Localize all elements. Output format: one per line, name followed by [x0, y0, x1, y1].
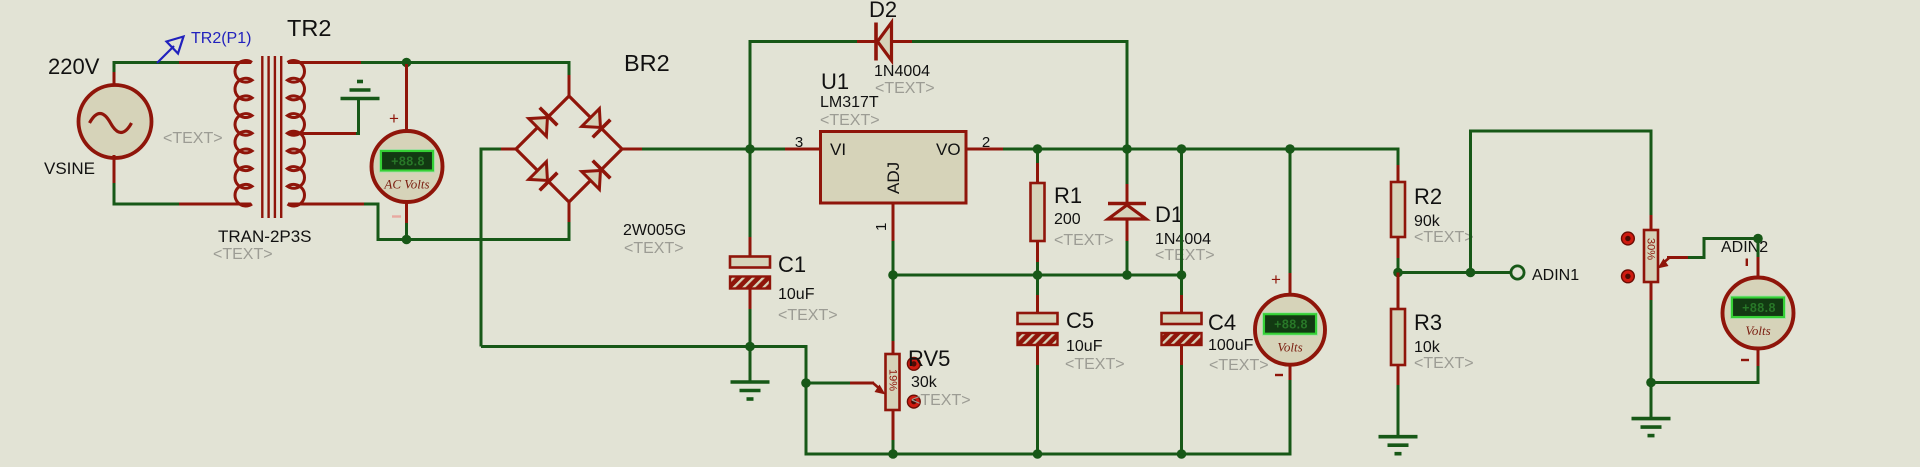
junction C4 top node [1177, 270, 1187, 280]
svg-text:+88.8: +88.8 [1742, 301, 1776, 315]
pin 220V source top stub [113, 72, 116, 88]
wire C1 ground stem [749, 347, 752, 383]
svg-text:<TEXT>: <TEXT> [1065, 356, 1125, 373]
pin C4 top [1180, 295, 1183, 314]
pin right pot wiper lead [1667, 256, 1689, 259]
terminal right pot upper red dot [1622, 232, 1635, 245]
label RV5 wiper percent [887, 369, 899, 391]
label C5 value 10uF [1066, 338, 1103, 355]
junction ADJ node [888, 270, 898, 280]
pin RV5 bottom [892, 409, 895, 441]
label C1 property placeholder [778, 307, 838, 324]
wire DC voltmeter minus lead [1289, 380, 1292, 456]
wire ADJ rail [893, 274, 1182, 277]
pin right voltmeter minus [1757, 347, 1760, 367]
svg-text:+: + [389, 109, 399, 128]
voltmeter PV1 AC Volts [372, 131, 443, 202]
pin RV5 wiper arrow [873, 383, 886, 395]
svg-text:D2: D2 [869, 0, 897, 22]
wire C1 top lead [749, 149, 752, 238]
label transformer TR2 [287, 15, 331, 41]
pin C1 bottom [749, 288, 752, 310]
wire right pot top lead [1650, 130, 1653, 217]
svg-text:U1: U1 [821, 69, 849, 94]
pin secondary top tap [288, 61, 362, 64]
pin AC voltmeter negative [405, 202, 408, 224]
svg-text:1: 1 [873, 223, 890, 231]
label U1 pin VI [830, 140, 846, 159]
transformer TR2 core [262, 56, 281, 218]
junction RV5 wiper node [801, 378, 811, 388]
svg-text:TRAN-2P3S: TRAN-2P3S [218, 227, 312, 246]
label minus sign AC voltmeter [392, 215, 401, 217]
wire R1 bottom lead [1036, 262, 1039, 275]
svg-text:ADJ: ADJ [884, 162, 903, 194]
svg-text:1N4004: 1N4004 [874, 63, 930, 80]
pin U1 VO stub [965, 148, 1004, 151]
wire R2 bottom lead [1397, 258, 1400, 273]
wire DC minus vertical [480, 148, 483, 347]
regulator U1 LM317T body [821, 132, 967, 204]
voltmeter PV3 Volts right [1723, 278, 1794, 349]
svg-text:30%: 30% [1645, 238, 1657, 260]
wire bridge top lead [568, 63, 571, 77]
svg-text:VSINE: VSINE [44, 159, 95, 178]
label diode D1 [1155, 202, 1183, 227]
label pin number 3 [795, 134, 803, 151]
label R3 value 10k [1414, 339, 1441, 356]
potentiometer RV right body [1644, 230, 1658, 282]
pin U1 ADJ [892, 203, 895, 242]
resistor R3 10k [1391, 309, 1405, 365]
wire right pot bottom lead [1650, 300, 1653, 418]
pin C5 bottom [1036, 344, 1039, 366]
wire rail bypass vertical [1180, 149, 1183, 275]
wire RV5 top lead [892, 275, 895, 342]
pin right voltmeter plus [1757, 257, 1760, 279]
svg-text:<TEXT>: <TEXT> [1414, 229, 1474, 246]
svg-text:<TEXT>: <TEXT> [213, 246, 273, 263]
label U1 pin VO [936, 140, 961, 159]
svg-text:100uF: 100uF [1208, 337, 1254, 354]
svg-text:D1: D1 [1155, 202, 1183, 227]
svg-text:19%: 19% [887, 369, 899, 391]
svg-text:Volts: Volts [1745, 323, 1770, 338]
transformer TR2 secondary winding [288, 61, 305, 206]
label U1 property placeholder [820, 112, 880, 129]
svg-text:10uF: 10uF [1066, 338, 1103, 355]
pin C4 bottom [1180, 344, 1183, 366]
svg-text:VO: VO [936, 140, 961, 159]
pin C5 top [1036, 295, 1039, 314]
resistor R1 200 [1031, 183, 1045, 241]
label C4 property placeholder [1209, 357, 1269, 374]
label R3 property placeholder [1414, 355, 1474, 372]
pin D2 anode-side stub [857, 40, 875, 43]
svg-text:1N4004: 1N4004 [1155, 231, 1211, 248]
bridge BR2 diamond outline [516, 96, 622, 202]
junction D2 C1 node [745, 144, 755, 154]
label capacitor C4 [1208, 310, 1236, 335]
junction D2 return node [1122, 144, 1132, 154]
diode BR2 top-right [582, 109, 611, 138]
pin D1 cathode [1126, 184, 1129, 204]
pin D1 anode [1126, 220, 1129, 242]
pin right pot bottom [1650, 281, 1653, 301]
pin transformer primary bottom lead [179, 203, 251, 206]
pin 220V source bottom stub [113, 155, 116, 184]
junction C4 bottom on rail [1177, 449, 1187, 459]
label regulator U1 [821, 69, 849, 94]
junction AC+ node [402, 58, 412, 68]
label minus sign right voltmeter [1741, 359, 1749, 361]
wire ground run horizontal [481, 345, 808, 348]
svg-text:220V: 220V [48, 54, 100, 79]
diode D1 1N4004 [1108, 204, 1146, 220]
junction C5 bottom on rail [1033, 449, 1043, 459]
diode BR2 bottom-left [529, 162, 558, 191]
generator V1 220V VSINE source circle [79, 85, 152, 158]
svg-text:<TEXT>: <TEXT> [1414, 355, 1474, 372]
wire R3 bottom lead [1397, 385, 1400, 437]
label plus sign DC voltmeter [1271, 270, 1281, 289]
wire C4 bottom lead [1180, 365, 1183, 454]
capacitor C1 10uF [730, 257, 770, 289]
label diode D2 [869, 0, 897, 22]
wire RV5 bottom lead [892, 440, 895, 454]
pin AC voltmeter positive [405, 64, 408, 131]
label source property placeholder [163, 130, 223, 147]
wire bridge bottom drop [568, 222, 571, 241]
svg-text:<TEXT>: <TEXT> [163, 130, 223, 147]
svg-text:<TEXT>: <TEXT> [1209, 357, 1269, 374]
pin bridge top corner [568, 75, 571, 97]
pin right pot top [1650, 215, 1653, 231]
terminal ADIN1 open circle [1511, 266, 1524, 279]
pin right pot wiper arrow [1658, 258, 1670, 269]
label C1 value 10uF [778, 286, 815, 303]
label pin number 2 [982, 134, 990, 151]
wire D2 branch right riser [912, 42, 1127, 151]
label probe TR2(P1) [191, 30, 251, 47]
ground transformer center tap [341, 82, 380, 99]
label potentiometer RV5 [908, 346, 950, 371]
pin bridge left corner [500, 148, 517, 151]
terminal RV5 lower red dot [907, 395, 920, 408]
wire C4 top lead [1180, 275, 1183, 296]
wire source top vertical [113, 63, 116, 79]
pin R1 bottom [1036, 240, 1039, 263]
potentiometer RV5 body [886, 354, 900, 410]
label source name VSINE [44, 159, 95, 178]
pin RV5 top [892, 341, 895, 355]
svg-text:90k: 90k [1414, 213, 1441, 230]
svg-text:BR2: BR2 [624, 50, 670, 76]
svg-text:VI: VI [830, 140, 846, 159]
svg-text:10k: 10k [1414, 339, 1441, 356]
svg-text:<TEXT>: <TEXT> [1155, 247, 1215, 264]
label transformer property placeholder [213, 246, 273, 263]
wire bottom rail [805, 453, 1292, 456]
svg-text:C4: C4 [1208, 310, 1236, 335]
wire D2 branch left riser [750, 42, 858, 151]
wire C5 bottom lead [1036, 365, 1039, 454]
label source value 220V [48, 54, 100, 79]
svg-text:<TEXT>: <TEXT> [624, 240, 684, 257]
pin DC voltmeter minus [1289, 364, 1292, 381]
junction RV5 bottom on rail [888, 449, 898, 459]
wire divider to ADIN1 [1398, 271, 1511, 274]
label capacitor C5 [1066, 308, 1094, 333]
label resistor R3 [1414, 310, 1442, 335]
junction D1 bottom node [1122, 270, 1132, 280]
label R1 property placeholder [1054, 232, 1114, 249]
wire right voltmeter top lead [1757, 239, 1760, 259]
svg-text:C5: C5 [1066, 308, 1094, 333]
junction divider node [1393, 268, 1403, 278]
svg-text:TR2(P1): TR2(P1) [191, 30, 251, 47]
wire ground run corner drop [805, 347, 808, 456]
junction bypass column node [1177, 144, 1187, 154]
capacitor C5 10uF [1018, 313, 1058, 345]
wire D1 top lead [1126, 149, 1129, 185]
wire feedback riser and top run [1471, 131, 1652, 273]
svg-text:<TEXT>: <TEXT> [820, 112, 880, 129]
label RV5 value 30k [911, 374, 938, 391]
resistor R2 90k [1391, 182, 1405, 237]
label minus sign DC voltmeter [1275, 374, 1283, 376]
junction R1 top node [1033, 144, 1043, 154]
terminal right pot lower red dot [1622, 270, 1635, 283]
wire source bottom horizontal [113, 203, 181, 206]
terminal RV5 upper red dot [907, 357, 920, 370]
pin R2 top [1397, 165, 1400, 183]
junction AC- node [402, 235, 412, 245]
diode D2 1N4004 [876, 23, 892, 61]
pin R3 bottom [1397, 364, 1400, 386]
svg-text:<TEXT>: <TEXT> [875, 80, 935, 97]
label transformer TRAN-2P3S [218, 227, 312, 246]
svg-text:2W005G: 2W005G [623, 222, 686, 239]
pin DC voltmeter plus [1289, 273, 1292, 295]
label node ADIN2 [1721, 239, 1768, 256]
probe TR2(P1) blue arrow [157, 37, 184, 64]
svg-text:<TEXT>: <TEXT> [1054, 232, 1114, 249]
svg-text:ADIN2: ADIN2 [1721, 239, 1768, 256]
svg-text:ADIN1: ADIN1 [1532, 267, 1579, 284]
wire RV5 wiper run [806, 382, 851, 385]
label bridge BR2 [624, 50, 670, 76]
label node ADIN1 [1532, 267, 1579, 284]
label D1 property placeholder [1155, 247, 1215, 264]
svg-text:200: 200 [1054, 211, 1081, 228]
wire wiper to ADIN2 [1688, 239, 1760, 258]
pin RV5 wiper [850, 382, 874, 385]
wire secondary top to bridge [361, 61, 571, 64]
label resistor R2 [1414, 184, 1442, 209]
junction feedback riser node [1466, 268, 1476, 278]
wire main rail from bridge [642, 148, 786, 151]
ground below R3 [1379, 437, 1418, 454]
svg-text:30k: 30k [911, 374, 938, 391]
label bridge property placeholder [624, 240, 684, 257]
wire C1 bottom lead [749, 309, 752, 347]
junction DC voltmeter plus node [1285, 144, 1295, 154]
wire center tap ground stem [356, 99, 359, 134]
pin R1 top [1036, 163, 1039, 184]
wire source top horizontal [113, 61, 181, 64]
label R2 value 90k [1414, 213, 1441, 230]
label pin number 1 [873, 223, 890, 231]
wire secondary bottom to bridge [364, 204, 570, 240]
label U1 value LM317T [820, 94, 879, 111]
label right pot percent [1645, 238, 1657, 260]
label R2 property placeholder [1414, 229, 1474, 246]
wire bridge left lead [481, 148, 501, 151]
svg-text:10uF: 10uF [778, 286, 815, 303]
label resistor R1 [1054, 183, 1082, 208]
label D2 value 1N4004 [874, 63, 930, 80]
pin R3 top [1397, 273, 1400, 311]
wire ADJ drop [892, 241, 895, 275]
svg-text:LM317T: LM317T [820, 94, 879, 111]
svg-text:+88.8: +88.8 [1274, 318, 1308, 332]
svg-text:AC Volts: AC Volts [383, 177, 429, 192]
pin R2 bottom [1397, 236, 1400, 259]
pin bridge right corner [621, 148, 643, 151]
wire main rail right [1003, 148, 1400, 151]
capacitor C4 100uF [1162, 313, 1202, 345]
label R1 value 200 [1054, 211, 1081, 228]
diode BR2 bottom-right [582, 161, 611, 190]
svg-text:R1: R1 [1054, 183, 1082, 208]
wire C5 top lead [1036, 275, 1039, 296]
label plus mark right voltmeter [1746, 259, 1748, 267]
svg-text:<TEXT>: <TEXT> [778, 307, 838, 324]
wire D1 bottom lead [1126, 241, 1129, 275]
ground right side [1632, 419, 1671, 436]
svg-text:R3: R3 [1414, 310, 1442, 335]
label capacitor C1 [778, 252, 806, 277]
ground near C1 [731, 382, 770, 399]
wire DC voltmeter plus lead [1289, 149, 1292, 274]
diode BR2 top-left [529, 108, 558, 137]
svg-text:+: + [1271, 270, 1281, 289]
label C5 property placeholder [1065, 356, 1125, 373]
svg-text:Volts: Volts [1277, 340, 1302, 355]
wire R1 top lead [1036, 149, 1039, 164]
wire right voltmeter minus lead [1650, 366, 1759, 383]
pin secondary bottom tap [288, 203, 365, 206]
pin U1 VI stub [785, 148, 821, 151]
svg-text:C1: C1 [778, 252, 806, 277]
svg-text:TR2: TR2 [287, 15, 331, 41]
label D1 value 1N4004 [1155, 231, 1211, 248]
label RV5 property placeholder [911, 392, 971, 409]
svg-text:R2: R2 [1414, 184, 1442, 209]
svg-text:RV5: RV5 [908, 346, 950, 371]
label bridge 2W005G [623, 222, 686, 239]
svg-text:+88.8: +88.8 [391, 155, 425, 169]
wire AC voltmeter negative drop [405, 223, 408, 240]
pin transformer primary top lead [179, 61, 251, 64]
pin secondary center tap [288, 132, 357, 135]
wire rail corner to R2 [1397, 148, 1400, 167]
wire source bottom vertical [113, 183, 116, 204]
junction ADIN2 node [1753, 234, 1763, 244]
label D2 property placeholder [875, 80, 935, 97]
pin bridge bottom corner [568, 201, 571, 223]
svg-text:<TEXT>: <TEXT> [911, 392, 971, 409]
junction R1 bottom node [1033, 270, 1043, 280]
pin D2 right stub [892, 40, 913, 43]
junction ground node [745, 342, 755, 352]
voltmeter PV2 Volts [1255, 295, 1325, 365]
label plus sign AC voltmeter [389, 109, 399, 128]
junction right meter minus node [1646, 378, 1656, 388]
label C4 value 100uF [1208, 337, 1254, 354]
pin C1 top [749, 237, 752, 258]
svg-text:2: 2 [982, 134, 990, 151]
transformer TR2 primary winding [235, 61, 252, 206]
label U1 pin ADJ [884, 162, 903, 194]
